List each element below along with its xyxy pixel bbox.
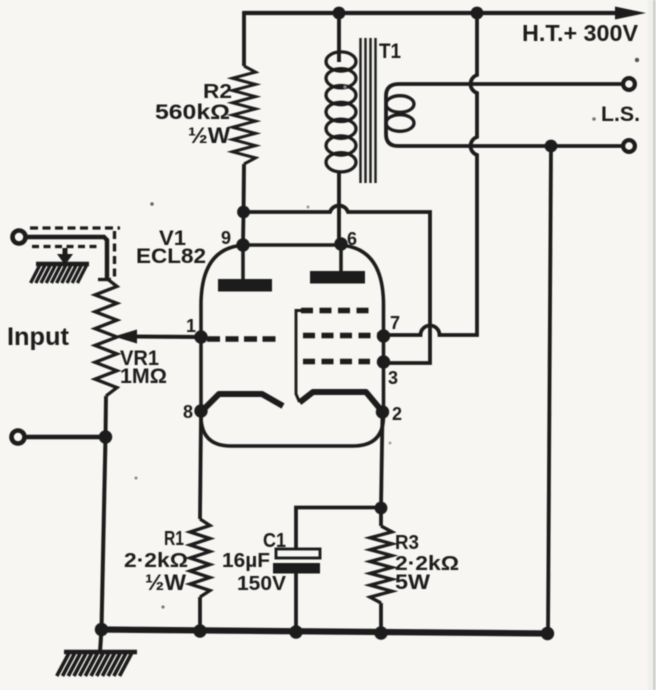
svg-text:6: 6 <box>347 229 357 249</box>
svg-text:R3: R3 <box>395 532 419 554</box>
svg-text:7: 7 <box>390 313 400 333</box>
svg-text:5W: 5W <box>395 571 430 594</box>
svg-text:1MΩ: 1MΩ <box>120 365 167 388</box>
svg-text:2: 2 <box>392 404 402 424</box>
svg-text:3: 3 <box>388 368 398 388</box>
svg-text:ECL82: ECL82 <box>136 245 206 268</box>
svg-text:H.T.+ 300V: H.T.+ 300V <box>522 20 639 46</box>
svg-text:L.S.: L.S. <box>601 103 640 126</box>
svg-text:1: 1 <box>186 316 196 336</box>
svg-text:R2: R2 <box>203 81 232 103</box>
svg-text:2·2kΩ: 2·2kΩ <box>124 549 188 572</box>
svg-text:R1: R1 <box>164 528 184 550</box>
svg-text:Input: Input <box>7 323 70 351</box>
svg-text:9: 9 <box>221 228 231 248</box>
svg-text:560kΩ: 560kΩ <box>155 101 230 124</box>
svg-text:½W: ½W <box>145 570 186 595</box>
svg-text:16µF: 16µF <box>222 549 270 572</box>
svg-text:8: 8 <box>183 402 193 422</box>
svg-text:150V: 150V <box>237 572 286 595</box>
svg-text:½W: ½W <box>188 123 230 148</box>
svg-text:T1: T1 <box>379 40 401 63</box>
